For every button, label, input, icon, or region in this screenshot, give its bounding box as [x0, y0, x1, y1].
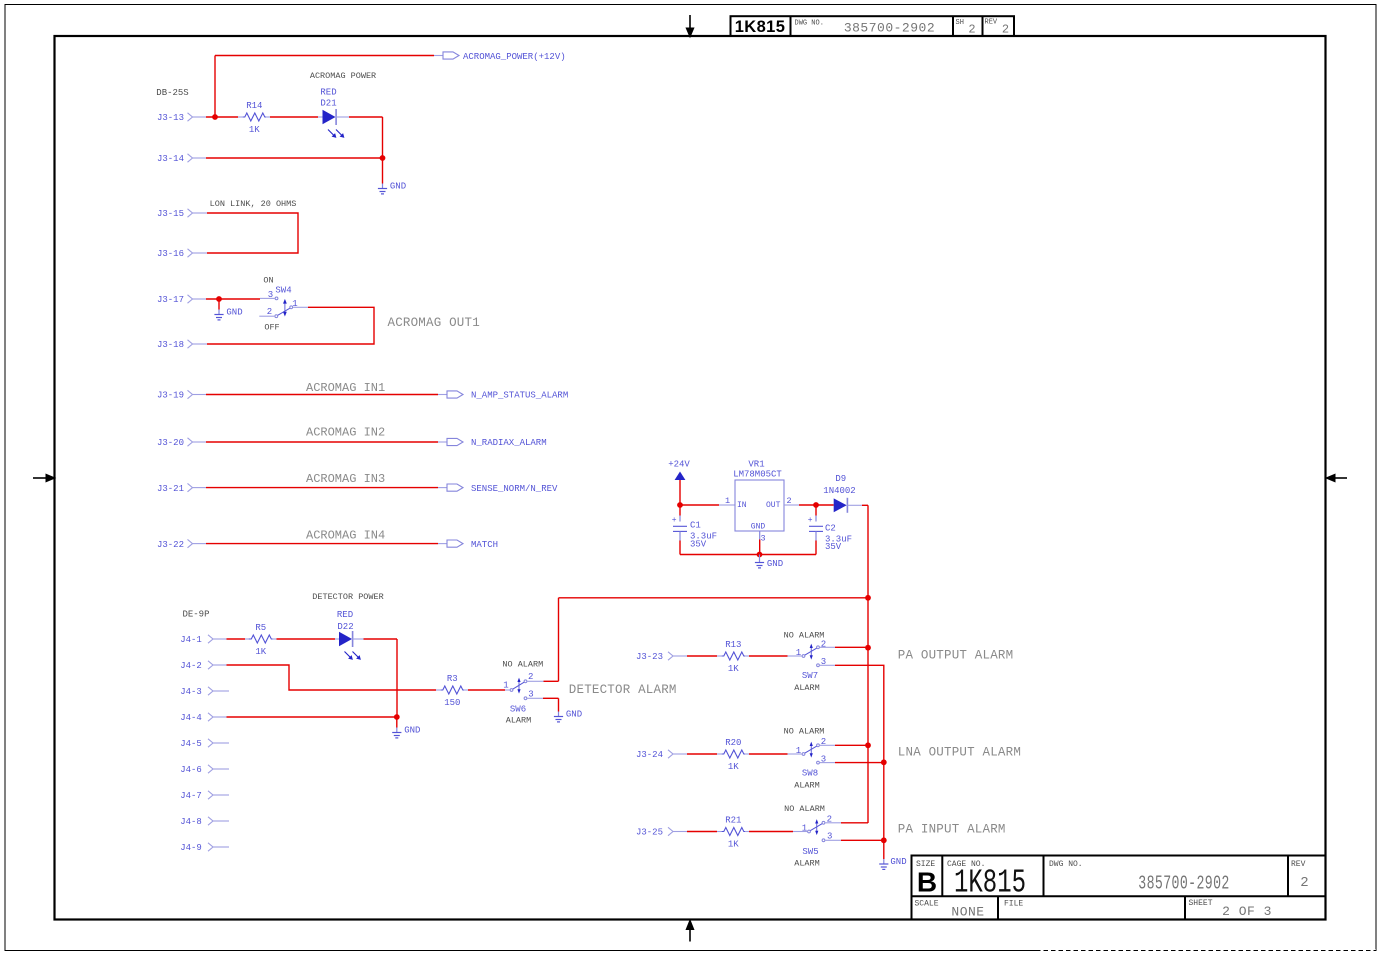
- svg-text:J3-23: J3-23: [636, 652, 663, 662]
- svg-text:ACROMAG POWER: ACROMAG POWER: [310, 71, 376, 81]
- svg-text:+: +: [808, 516, 813, 525]
- svg-text:SW4: SW4: [275, 286, 291, 296]
- svg-text:OFF: OFF: [264, 323, 279, 333]
- svg-text:C2: C2: [825, 524, 836, 534]
- svg-text:J4-4: J4-4: [180, 713, 202, 723]
- svg-text:B: B: [917, 867, 937, 898]
- svg-text:GND: GND: [404, 726, 420, 736]
- svg-text:R21: R21: [725, 816, 741, 826]
- svg-text:NO ALARM: NO ALARM: [502, 660, 543, 670]
- svg-text:NO ALARM: NO ALARM: [784, 804, 825, 814]
- svg-text:J3-15: J3-15: [157, 209, 184, 219]
- svg-text:1K815: 1K815: [954, 864, 1026, 902]
- svg-text:GND: GND: [751, 522, 766, 531]
- svg-text:R20: R20: [725, 738, 741, 748]
- svg-text:J3-18: J3-18: [157, 340, 184, 350]
- svg-text:2 OF 3: 2 OF 3: [1222, 904, 1272, 919]
- svg-text:1K: 1K: [728, 762, 739, 772]
- svg-text:GND: GND: [566, 710, 582, 720]
- svg-text:SCALE: SCALE: [915, 900, 939, 909]
- svg-text:GND: GND: [767, 559, 783, 569]
- svg-text:J4-5: J4-5: [180, 739, 202, 749]
- svg-text:SW6: SW6: [510, 705, 526, 715]
- svg-text:N_RADIAX_ALARM: N_RADIAX_ALARM: [471, 438, 547, 448]
- svg-text:1K: 1K: [249, 125, 260, 135]
- svg-text:ACROMAG IN2: ACROMAG IN2: [306, 426, 385, 440]
- svg-text:385700-2902: 385700-2902: [1138, 873, 1229, 895]
- svg-text:ACROMAG IN4: ACROMAG IN4: [306, 529, 385, 543]
- svg-text:J3-24: J3-24: [636, 750, 663, 760]
- svg-text:1K: 1K: [728, 664, 739, 674]
- svg-text:PA INPUT ALARM: PA INPUT ALARM: [898, 823, 1006, 837]
- svg-text:ACROMAG OUT1: ACROMAG OUT1: [388, 316, 480, 330]
- svg-text:+24V: +24V: [668, 460, 690, 470]
- svg-text:SW5: SW5: [802, 847, 818, 857]
- svg-text:SW7: SW7: [802, 671, 818, 681]
- svg-text:J4-6: J4-6: [180, 765, 202, 775]
- svg-text:+: +: [672, 516, 677, 525]
- svg-text:35V: 35V: [825, 542, 842, 552]
- svg-text:1K: 1K: [255, 647, 266, 657]
- svg-text:J3-21: J3-21: [157, 484, 184, 494]
- svg-text:1: 1: [725, 496, 730, 506]
- svg-text:J4-2: J4-2: [180, 661, 202, 671]
- svg-text:3: 3: [760, 534, 765, 544]
- svg-text:ALARM: ALARM: [506, 716, 532, 726]
- svg-text:1K815: 1K815: [735, 18, 786, 36]
- svg-text:NONE: NONE: [951, 905, 984, 920]
- svg-text:J4-8: J4-8: [180, 817, 202, 827]
- svg-text:R3: R3: [447, 674, 458, 684]
- svg-text:1: 1: [503, 681, 508, 691]
- svg-text:J4-9: J4-9: [180, 843, 202, 853]
- svg-text:2: 2: [528, 672, 533, 682]
- svg-text:N_AMP_STATUS_ALARM: N_AMP_STATUS_ALARM: [471, 391, 568, 401]
- svg-text:OUT: OUT: [766, 501, 781, 510]
- svg-text:1K: 1K: [728, 840, 739, 850]
- svg-text:LM78M05CT: LM78M05CT: [733, 470, 782, 480]
- svg-text:ALARM: ALARM: [794, 859, 820, 869]
- svg-text:1: 1: [802, 824, 807, 834]
- svg-text:SH: SH: [956, 19, 964, 27]
- svg-text:IN: IN: [737, 501, 747, 510]
- svg-text:REV: REV: [1291, 860, 1306, 869]
- svg-text:DWG NO.: DWG NO.: [795, 20, 824, 28]
- svg-text:J4-3: J4-3: [180, 687, 202, 697]
- svg-text:2: 2: [1002, 22, 1009, 36]
- svg-text:SW8: SW8: [802, 769, 818, 779]
- svg-text:DETECTOR ALARM: DETECTOR ALARM: [569, 683, 677, 697]
- svg-text:D22: D22: [337, 622, 353, 632]
- svg-text:ALARM: ALARM: [794, 683, 820, 693]
- svg-text:3: 3: [268, 290, 273, 300]
- svg-text:R13: R13: [725, 640, 741, 650]
- svg-text:ACROMAG IN3: ACROMAG IN3: [306, 472, 385, 486]
- svg-text:DE-9P: DE-9P: [182, 610, 209, 620]
- svg-text:1: 1: [796, 648, 801, 658]
- svg-text:VR1: VR1: [748, 460, 764, 470]
- svg-text:1: 1: [796, 746, 801, 756]
- svg-text:NO ALARM: NO ALARM: [784, 631, 825, 641]
- svg-text:MATCH: MATCH: [471, 540, 498, 550]
- svg-text:ALARM: ALARM: [794, 781, 820, 791]
- svg-text:GND: GND: [890, 857, 906, 867]
- svg-text:2: 2: [968, 22, 975, 36]
- svg-text:DB-25S: DB-25S: [156, 88, 188, 98]
- svg-text:FILE: FILE: [1004, 900, 1023, 909]
- svg-text:NO ALARM: NO ALARM: [784, 727, 825, 737]
- svg-text:ACROMAG_POWER(+12V): ACROMAG_POWER(+12V): [463, 52, 566, 62]
- svg-text:J3-19: J3-19: [157, 391, 184, 401]
- svg-text:D9: D9: [835, 474, 846, 484]
- svg-text:2: 2: [267, 307, 272, 317]
- svg-text:SHEET: SHEET: [1189, 899, 1213, 908]
- svg-text:GND: GND: [226, 308, 242, 318]
- svg-text:RED: RED: [320, 88, 336, 98]
- svg-text:ON: ON: [263, 276, 273, 286]
- svg-text:J3-16: J3-16: [157, 249, 184, 259]
- svg-text:2: 2: [1300, 875, 1308, 891]
- svg-text:R5: R5: [255, 623, 266, 633]
- svg-text:PA OUTPUT ALARM: PA OUTPUT ALARM: [898, 649, 1014, 663]
- svg-text:J3-17: J3-17: [157, 295, 184, 305]
- svg-text:LON LINK, 20 OHMS: LON LINK, 20 OHMS: [210, 199, 297, 209]
- svg-text:GND: GND: [390, 182, 406, 192]
- svg-text:J3-14: J3-14: [157, 154, 184, 164]
- svg-text:J4-1: J4-1: [180, 635, 202, 645]
- svg-text:RED: RED: [337, 610, 353, 620]
- svg-text:150: 150: [444, 698, 460, 708]
- svg-text:C1: C1: [690, 520, 701, 530]
- svg-text:1N4002: 1N4002: [823, 486, 855, 496]
- svg-text:LNA OUTPUT ALARM: LNA OUTPUT ALARM: [898, 745, 1021, 759]
- svg-text:SENSE_NORM/N_REV: SENSE_NORM/N_REV: [471, 484, 558, 494]
- svg-text:J3-20: J3-20: [157, 438, 184, 448]
- svg-text:J4-7: J4-7: [180, 791, 202, 801]
- svg-text:ACROMAG IN1: ACROMAG IN1: [306, 381, 385, 395]
- svg-text:J3-22: J3-22: [157, 540, 184, 550]
- svg-text:385700-2902: 385700-2902: [844, 21, 935, 36]
- svg-text:DETECTOR POWER: DETECTOR POWER: [312, 592, 383, 602]
- svg-text:REV: REV: [985, 19, 998, 27]
- svg-text:DWG NO.: DWG NO.: [1049, 860, 1083, 869]
- svg-text:R14: R14: [246, 101, 262, 111]
- svg-text:J3-13: J3-13: [157, 113, 184, 123]
- svg-text:D21: D21: [320, 99, 336, 109]
- svg-text:35V: 35V: [690, 540, 707, 550]
- svg-text:J3-25: J3-25: [636, 828, 663, 838]
- svg-text:2: 2: [821, 639, 826, 649]
